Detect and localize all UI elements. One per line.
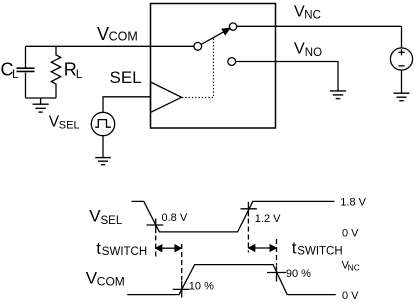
svg-text:0.8 V: 0.8 V	[162, 212, 188, 224]
cross mark 1.2V	[241, 202, 257, 217]
svg-text:NC: NC	[348, 262, 360, 272]
svg-text:0 V: 0 V	[342, 290, 359, 302]
svg-text:SWITCH: SWITCH	[102, 246, 147, 258]
dashed marker line (10% edge)	[181, 244, 183, 280]
wire source to ground	[401, 70, 403, 93]
wire V_NC	[237, 25, 402, 27]
wire bottom (C_L/R_L to ground)	[26, 97, 57, 99]
dashed marker line (rising edge)	[247, 219, 249, 253]
svg-text:SEL: SEL	[59, 120, 80, 132]
voltage source V1	[390, 48, 412, 70]
svg-text:1.2 V: 1.2 V	[255, 213, 281, 225]
wire V_SEL to ground	[102, 136, 104, 158]
source V_SEL (pulse generator)	[91, 112, 114, 135]
capacitor C_L	[17, 46, 35, 98]
IC box U1	[151, 4, 276, 129]
arrow t_SWITCH right	[249, 245, 276, 251]
svg-text:V: V	[97, 24, 109, 44]
dashed marker line (90% edge)	[276, 239, 278, 266]
cross mark 90%	[267, 266, 286, 282]
node NO contact	[228, 58, 236, 66]
node COM (pole contact)	[194, 42, 202, 50]
svg-text:L: L	[12, 67, 19, 81]
svg-text:L: L	[76, 67, 83, 81]
svg-text:NO: NO	[305, 47, 322, 59]
svg-text:SEL: SEL	[110, 68, 142, 87]
svg-text:COM: COM	[109, 30, 138, 44]
ground (below C_L/R_L)	[33, 98, 49, 112]
op-amp buffer (SEL driver)	[151, 82, 182, 113]
ground (below source)	[394, 93, 410, 101]
waveform V_COM	[127, 265, 336, 295]
cross mark 0.8V	[147, 219, 164, 234]
svg-text:V: V	[294, 41, 305, 58]
svg-text:t: t	[96, 239, 101, 258]
ground (below V_SEL)	[95, 158, 111, 165]
svg-text:1.8 V: 1.8 V	[340, 197, 366, 209]
switch arm with arrow	[201, 28, 230, 44]
wire V_NO	[236, 62, 338, 91]
svg-text:COM: COM	[97, 275, 125, 289]
svg-text:NC: NC	[304, 9, 321, 21]
svg-text:t: t	[292, 239, 297, 258]
wire V_NC to source	[401, 26, 403, 48]
ground (below V_NO)	[330, 91, 346, 99]
svg-text:90 %: 90 %	[286, 268, 311, 280]
dashed marker line (falling edge)	[155, 236, 157, 259]
svg-text:V: V	[89, 207, 101, 226]
wire SEL input	[103, 97, 151, 112]
dotted control line (buffer to switch)	[182, 38, 214, 98]
svg-text:SEL: SEL	[101, 215, 123, 227]
arrow t_SWITCH left	[156, 245, 181, 251]
svg-text:0 V: 0 V	[342, 228, 359, 240]
resistor R_L	[51, 46, 60, 98]
cross mark 10%	[173, 281, 190, 298]
svg-text:10 %: 10 %	[189, 281, 214, 293]
waveform V_SEL	[132, 201, 335, 232]
node NC contact	[229, 23, 236, 30]
svg-text:SWITCH: SWITCH	[297, 246, 342, 258]
wire V_COM	[26, 45, 194, 47]
